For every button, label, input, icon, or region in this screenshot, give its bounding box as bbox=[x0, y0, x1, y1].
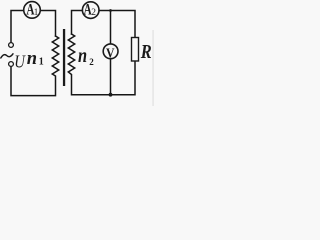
svg-text:1: 1 bbox=[39, 57, 44, 68]
svg-text:n: n bbox=[78, 44, 87, 67]
svg-text:V: V bbox=[106, 46, 114, 61]
svg-text:2: 2 bbox=[89, 57, 94, 67]
svg-text:2: 2 bbox=[91, 8, 96, 18]
svg-text:U: U bbox=[14, 51, 26, 72]
svg-text:R: R bbox=[140, 41, 152, 63]
svg-text:n: n bbox=[27, 49, 37, 69]
svg-text:1: 1 bbox=[34, 7, 39, 17]
